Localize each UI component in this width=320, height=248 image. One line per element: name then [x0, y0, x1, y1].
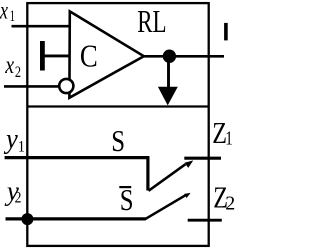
wire x2 input — [4, 85, 60, 88]
wire reference plate to comparator — [45, 54, 70, 57]
node I output label — [224, 23, 228, 41]
wire x1 input — [12, 25, 71, 28]
wire y1 input — [5, 156, 150, 159]
svg-text:2: 2 — [225, 192, 235, 214]
svg-text:1: 1 — [18, 138, 25, 156]
svg-text:1: 1 — [10, 7, 16, 25]
node Z1 label — [212, 116, 232, 151]
switch S blade arrowhead — [185, 160, 194, 168]
reference plate bar — [40, 41, 45, 71]
node y2 label — [4, 176, 21, 207]
relay coil arrowhead — [158, 87, 178, 106]
svg-text:C: C — [80, 40, 98, 74]
switch S blade — [149, 164, 186, 191]
comparator C triangle — [69, 11, 143, 97]
enclosure box — [27, 3, 208, 246]
node Z2 label — [213, 181, 235, 216]
inversion bubble on x2 input — [59, 79, 73, 93]
junction dot on output wire — [163, 50, 176, 63]
wire divider between comparator and switch sections — [27, 105, 208, 107]
svg-text:RL: RL — [137, 3, 166, 38]
svg-text:x: x — [0, 0, 8, 24]
node x2 label — [4, 51, 21, 81]
svg-text:2: 2 — [15, 63, 21, 81]
svg-text:1: 1 — [225, 126, 232, 149]
wire Z1 contact — [184, 157, 221, 160]
wire y2 input — [6, 217, 146, 220]
wire comparator output — [144, 55, 224, 58]
switch S-bar blade arrowhead — [184, 193, 190, 198]
svg-text:2: 2 — [15, 189, 22, 206]
switch S-bar label — [119, 184, 133, 218]
switch S-bar blade — [145, 195, 186, 219]
wire relay coil stem — [167, 56, 170, 88]
svg-text:x: x — [4, 51, 14, 79]
node x1 label — [0, 0, 15, 25]
svg-text:S: S — [111, 124, 125, 158]
wire Z2 contact — [188, 219, 222, 222]
node y1 label — [3, 123, 25, 156]
junction dot y2 at enclosure edge — [21, 213, 33, 225]
svg-text:S: S — [120, 184, 134, 218]
svg-text:y: y — [3, 123, 19, 154]
wire switch S pivot drop — [146, 156, 149, 190]
